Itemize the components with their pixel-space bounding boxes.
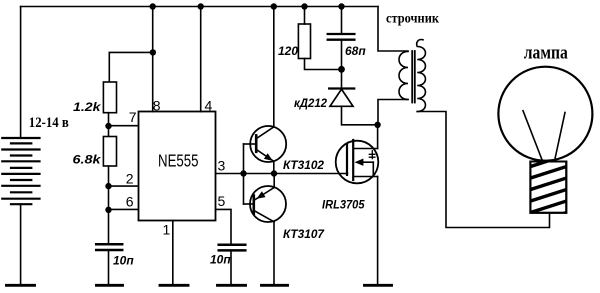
wire pin 7 — [109, 125, 139, 127]
transistor Q2 KT3107 — [244, 186, 287, 222]
wire C1 bottom — [108, 250, 110, 285]
wire R3 bottom to node — [305, 59, 342, 70]
transistor Q1 KT3102 — [244, 126, 287, 162]
wire mosfet drain up — [377, 125, 379, 149]
ground terminal C2 — [218, 284, 246, 287]
wire battery positive to rail — [20, 7, 22, 139]
svg-text:NE555: NE555 — [158, 151, 199, 171]
wire 6.8k bottom down to capacitor C1 — [108, 166, 110, 244]
transformer T1 secondary winding — [417, 40, 426, 112]
capacitor C1 10n — [96, 244, 122, 250]
ground terminal mosfet — [365, 284, 392, 287]
wire pin 3 output — [216, 173, 348, 175]
svg-text:лампа: лампа — [524, 43, 568, 64]
wire base link of Q1/Q2 — [243, 144, 245, 204]
wire pin 6 — [109, 208, 139, 210]
svg-text:120: 120 — [278, 44, 298, 58]
svg-text:4: 4 — [205, 98, 213, 114]
op-amp U1 NE555 body — [139, 112, 216, 221]
svg-text:кД212: кД212 — [294, 96, 327, 110]
ground terminal pin1 — [160, 284, 188, 287]
wire Q1 emitter to output node — [273, 161, 275, 173]
transistor Q3 IRL3705 mosfet — [336, 140, 379, 183]
svg-text:КТ3102: КТ3102 — [283, 158, 324, 172]
wire mosfet source to ground — [377, 177, 379, 286]
wire C2 bottom — [230, 250, 232, 285]
svg-text:8: 8 — [153, 98, 161, 114]
wire pin 4 to rail — [200, 7, 202, 112]
resistor R3 120 — [298, 24, 310, 59]
wire Q2 collector to ground — [273, 222, 275, 285]
wire Q2 emitter to output node — [273, 174, 275, 188]
svg-text:6: 6 — [126, 194, 134, 210]
resistor R2 6.8k — [103, 137, 116, 167]
svg-text:7: 7 — [129, 109, 137, 125]
ground terminal battery — [7, 284, 35, 287]
wire Q1 collector to rail — [273, 7, 275, 127]
wire pin 5 — [216, 209, 232, 244]
transformer T1 core — [411, 51, 413, 103]
wire R3 top to rail — [304, 7, 306, 25]
svg-text:строчник: строчник — [386, 12, 440, 27]
wire secondary bottom to lamp — [417, 112, 549, 228]
diode D1 KD212 — [329, 89, 354, 107]
svg-text:1: 1 — [163, 222, 171, 238]
svg-text:6.8k: 6.8k — [73, 153, 103, 167]
wire C3 bottom to diode — [341, 40, 343, 89]
svg-text:1.2k: 1.2k — [73, 100, 102, 114]
wire 1.2k bottom to 6.8k top — [108, 113, 110, 137]
wire pin 2 — [109, 185, 139, 187]
lamp screw base — [529, 155, 568, 225]
svg-text:5: 5 — [218, 193, 226, 209]
svg-text:12-14 в: 12-14 в — [29, 115, 69, 131]
svg-text:10п: 10п — [210, 253, 231, 267]
wire 1.2k top to pin8 line — [109, 52, 153, 82]
wire diode anode to drain node — [342, 106, 378, 125]
battery 12-14V — [2, 138, 39, 204]
ground terminal C1 — [97, 284, 123, 287]
lamp filament right — [555, 113, 565, 161]
svg-text:3: 3 — [218, 158, 226, 174]
svg-text:КТ3107: КТ3107 — [283, 227, 325, 241]
wire transformer primary bottom to drain node — [378, 100, 408, 125]
wire pin 8 to rail — [152, 7, 154, 112]
svg-text:68п: 68п — [345, 44, 366, 58]
wire battery negative down — [20, 204, 22, 285]
wire top rail — [21, 6, 378, 8]
wire pin 1 to ground — [172, 221, 174, 286]
capacitor C3 68n — [328, 34, 355, 40]
ground terminal Q2 — [262, 284, 288, 287]
svg-text:IRL3705: IRL3705 — [322, 198, 365, 212]
lamp bulb — [498, 67, 592, 161]
resistor R1 1.2k — [103, 82, 116, 113]
wire C3 top to rail — [341, 7, 343, 35]
svg-text:10п: 10п — [113, 254, 134, 268]
wire rail end down to transformer primary top — [378, 7, 408, 52]
capacitor C2 10n — [219, 245, 246, 251]
svg-text:2: 2 — [126, 171, 134, 187]
lamp filament left — [523, 111, 543, 161]
transformer T1 primary winding — [399, 52, 408, 100]
